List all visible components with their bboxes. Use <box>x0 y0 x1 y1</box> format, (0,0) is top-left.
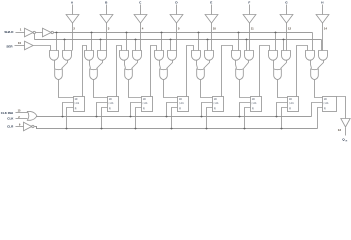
and-gate shift A7a <box>269 51 278 61</box>
and-gate load A7b <box>282 51 291 61</box>
wire SER to stage1 <box>34 46 51 51</box>
svg-text:2: 2 <box>73 27 75 31</box>
svg-text:1D: 1D <box>214 99 217 101</box>
wire input A column <box>72 23 74 51</box>
flip-flop FF1 <box>74 97 85 112</box>
wire input C to buffer <box>140 5 142 15</box>
node load rail stage 4 <box>170 39 172 41</box>
svg-text:C: C <box>139 1 142 5</box>
wire A3a output <box>125 61 126 69</box>
svg-text:SH/LD: SH/LD <box>4 30 14 34</box>
flip-flop FF5 <box>213 97 224 112</box>
wire shift enable stage 4 <box>161 33 163 51</box>
wire O8 to FF8 D <box>315 80 323 98</box>
and-gate load A2b <box>98 51 107 61</box>
wire clock to FF6 CP <box>240 103 251 117</box>
wire FF2 Q to next stage <box>117 46 122 97</box>
svg-text:▷C1: ▷C1 <box>109 102 114 105</box>
wire input G to buffer <box>286 5 288 15</box>
wire input F column <box>249 23 251 51</box>
svg-text:15: 15 <box>18 108 21 112</box>
node clear rail stage 7 <box>281 128 283 130</box>
svg-text:5: 5 <box>178 27 180 31</box>
svg-text:1D: 1D <box>289 99 292 101</box>
or-gate U3 (clock gating) <box>27 111 36 120</box>
svg-text:▷C1: ▷C1 <box>214 102 219 105</box>
wire FF3 Q to next stage <box>151 46 157 97</box>
svg-text:R: R <box>109 109 111 111</box>
and-gate shift A5a <box>192 51 201 61</box>
wire input D column <box>176 23 178 51</box>
svg-text:▷C1: ▷C1 <box>289 102 294 105</box>
svg-text:E: E <box>210 1 212 5</box>
node load rail stage 2 <box>100 39 102 41</box>
svg-text:R: R <box>75 109 77 111</box>
wire input H column <box>322 23 324 51</box>
node shift rail stage 4 <box>161 32 163 34</box>
wire load enable stage 2 <box>100 40 102 51</box>
buffer A (parallel input A) <box>66 15 79 24</box>
wire O3 to FF3 D <box>129 80 142 98</box>
svg-text:10: 10 <box>18 41 22 45</box>
wire FF6 Q to next stage <box>260 46 270 97</box>
wire clock to FF5 CP <box>202 103 213 117</box>
buffer F (parallel input F) <box>243 15 256 24</box>
wire A1a output <box>54 61 56 69</box>
wire clear to FF6 R <box>245 108 251 129</box>
flip-flop FF4 <box>178 97 189 112</box>
svg-text:R: R <box>143 109 145 111</box>
node clock rail stage 7 <box>276 116 278 118</box>
svg-text:13: 13 <box>338 128 342 132</box>
wire input B column <box>106 23 108 51</box>
svg-text:F: F <box>248 1 250 5</box>
wire O1 to FF1 D <box>59 80 74 98</box>
svg-text:SER: SER <box>6 45 13 49</box>
wire load enable stage 6 <box>246 40 248 51</box>
inverter U4 (CLR inverter) <box>24 122 32 131</box>
node clock rail stage 5 <box>201 116 203 118</box>
svg-text:R: R <box>289 109 291 111</box>
buffer E (parallel input E) <box>205 15 218 24</box>
wire A8a output <box>311 61 312 69</box>
buffer H (parallel input H) <box>316 15 329 24</box>
node shift rail stage 6 <box>238 32 240 34</box>
wire load enable stage 8 <box>321 40 323 51</box>
svg-text:CLK: CLK <box>7 117 14 121</box>
or-gate O3 <box>125 69 133 80</box>
wire clock to FF4 CP <box>167 103 178 117</box>
svg-text:1: 1 <box>20 27 22 31</box>
shift-enable rail <box>54 32 313 34</box>
svg-text:H: H <box>321 1 324 5</box>
buffer C (parallel input C) <box>134 15 147 24</box>
node shift rail stage 1 <box>56 32 58 34</box>
wire clear to FF4 R <box>172 108 178 129</box>
wire QH output <box>345 128 347 136</box>
wire input D to buffer <box>176 5 178 15</box>
wire clock to FF8 CP <box>312 103 323 117</box>
and-gate shift A8a <box>306 51 315 61</box>
wire FF7 Q to next stage <box>297 46 308 97</box>
and-gate load A5b <box>205 51 214 61</box>
and-gate shift A2a <box>85 51 94 61</box>
wire FF5 Q to next stage <box>222 46 233 97</box>
wire shift enable stage 6 <box>238 33 240 51</box>
node load rail stage 3 <box>135 39 137 41</box>
svg-text:R: R <box>179 109 181 111</box>
wire clear to FF8 R <box>318 108 323 129</box>
svg-text:12: 12 <box>288 27 292 31</box>
or-gate O4 <box>160 69 168 80</box>
wire clear to FF1 R <box>67 108 74 129</box>
wire load enable stage 5 <box>207 40 209 51</box>
wire shift enable stage 3 <box>126 33 128 51</box>
svg-text:1D: 1D <box>179 99 182 101</box>
wire inv1 to inv2 <box>36 32 43 34</box>
node clear rail stage 3 <box>135 128 137 130</box>
node load rail stage 5 <box>207 39 209 41</box>
wire shift enable stage 8 <box>312 33 314 51</box>
flip-flop FF8 <box>323 97 337 112</box>
node load rail stage 7 <box>283 39 285 41</box>
buffer G (parallel input G) <box>280 15 293 24</box>
wire load enable stage 7 <box>283 40 285 51</box>
flip-flop FF7 <box>288 97 299 112</box>
wire A4a output <box>160 61 161 69</box>
node clock rail stage 6 <box>239 116 241 118</box>
node clear rail stage 1 <box>66 128 68 130</box>
svg-text:▷C1: ▷C1 <box>324 102 329 105</box>
svg-text:10: 10 <box>213 27 217 31</box>
buffer B (parallel input B) <box>100 15 113 24</box>
node shift rail stage 2 <box>91 32 93 34</box>
node clear rail stage 6 <box>244 128 246 130</box>
wire shift enable stage 5 <box>198 33 200 51</box>
node clear rail stage 5 <box>206 128 208 130</box>
svg-text:11: 11 <box>251 27 254 31</box>
wire clear to FF7 R <box>282 108 288 129</box>
svg-text:1D: 1D <box>75 99 78 101</box>
wire input H to buffer <box>322 5 324 15</box>
wire input B to buffer <box>106 5 108 15</box>
wire input E to buffer <box>211 5 213 15</box>
wire A4b output <box>167 61 173 69</box>
svg-text:1D: 1D <box>252 99 255 101</box>
inverter U1b (SH/LD second inverter) <box>43 28 52 37</box>
wire FF4 Q to next stage <box>187 46 194 97</box>
wire A2b output <box>97 61 103 69</box>
flip-flop FF6 <box>251 97 262 112</box>
node load rail stage 1 <box>64 39 66 41</box>
node clear rail stage 4 <box>171 128 173 130</box>
wire A3b output <box>132 61 138 69</box>
node shift rail stage 5 <box>198 32 200 34</box>
or-gate O6 <box>236 69 244 80</box>
clock rail <box>37 116 312 118</box>
wire O5 to FF5 D <box>201 80 213 98</box>
svg-text:R: R <box>252 109 254 111</box>
wire A6a output <box>236 61 237 69</box>
and-gate load A3b <box>133 51 142 61</box>
buffer U2 (SER input buffer) <box>25 41 34 50</box>
svg-text:CLK INH: CLK INH <box>1 111 13 115</box>
wire load enable stage 4 <box>170 40 172 51</box>
wire A7a output <box>273 61 275 69</box>
or-gate O2 <box>90 69 98 80</box>
svg-text:B: B <box>105 1 108 5</box>
and-gate shift A3a <box>120 51 129 61</box>
wire input G column <box>286 23 288 51</box>
wire FF8 Q to output buffer <box>337 97 346 119</box>
node clock rail stage 1 <box>62 116 64 118</box>
flip-flop FF3 <box>142 97 153 112</box>
buffer U5 (QH output buffer) <box>341 119 350 128</box>
wire load enable stage 1 <box>64 40 66 51</box>
svg-text:▷C1: ▷C1 <box>143 102 148 105</box>
wire shift enable stage 2 <box>91 33 93 51</box>
wire clock to FF1 CP <box>63 103 74 117</box>
svg-text:9: 9 <box>19 122 21 126</box>
wire A1b output <box>62 61 68 69</box>
wire clear to FF2 R <box>102 108 108 129</box>
wire clock to FF2 CP <box>97 103 108 117</box>
load-enable rail <box>35 39 322 41</box>
wire clear to FF3 R <box>136 108 142 129</box>
and-gate shift A1a <box>50 51 59 61</box>
svg-text:G: G <box>285 1 288 5</box>
buffer D (parallel input D) <box>170 15 183 24</box>
wire A6b output <box>244 61 249 69</box>
svg-text:▷C1: ▷C1 <box>75 102 80 105</box>
node clear rail stage 2 <box>101 128 103 130</box>
and-gate load A4b <box>168 51 177 61</box>
wire tap to load rail <box>34 34 36 40</box>
svg-text:H: H <box>346 141 348 143</box>
wire A5a output <box>197 61 198 69</box>
node shift rail stage 3 <box>126 32 128 34</box>
svg-text:D: D <box>175 1 178 5</box>
node clock rail stage 3 <box>130 116 132 118</box>
wire O7 to FF7 D <box>278 80 288 98</box>
svg-text:R: R <box>214 109 216 111</box>
svg-text:▷C1: ▷C1 <box>252 102 257 105</box>
svg-text:1D: 1D <box>109 99 112 101</box>
wire O4 to FF4 D <box>164 80 178 98</box>
and-gate shift A4a <box>155 51 164 61</box>
wire load enable stage 3 <box>135 40 137 51</box>
clear rail <box>35 127 318 129</box>
wire O6 to FF6 D <box>240 80 251 98</box>
and-gate load A8b <box>319 51 328 61</box>
or-gate O8 <box>311 69 319 80</box>
wire input C column <box>140 23 142 51</box>
svg-text:▷C1: ▷C1 <box>179 102 184 105</box>
wire A2a output <box>90 61 91 69</box>
wire clear to FF5 R <box>207 108 213 129</box>
and-gate shift A6a <box>232 51 241 61</box>
wire O2 to FF2 D <box>94 80 108 98</box>
svg-text:4: 4 <box>142 27 144 31</box>
svg-text:14: 14 <box>324 27 328 31</box>
node clock rail stage 2 <box>96 116 98 118</box>
flip-flop FF2 <box>108 97 119 112</box>
svg-text:1D: 1D <box>324 99 327 101</box>
or-gate O1 <box>55 69 63 80</box>
node load rail stage 6 <box>246 39 248 41</box>
wire clock to FF7 CP <box>277 103 288 117</box>
svg-text:R: R <box>324 109 326 111</box>
wire A5b output <box>204 61 210 69</box>
wire shift enable stage 1 <box>56 33 58 51</box>
wire input A to buffer <box>72 5 74 15</box>
inverter U1a (SH/LD first inverter) <box>25 28 34 37</box>
svg-text:3: 3 <box>108 27 110 31</box>
svg-text:1D: 1D <box>143 99 146 101</box>
wire input F to buffer <box>249 5 251 15</box>
wire A7b output <box>281 61 287 69</box>
wire input E column <box>211 23 213 51</box>
wire A8b output <box>318 61 324 69</box>
node shift rail stage 7 <box>275 32 277 34</box>
and-gate load A1b <box>63 51 72 61</box>
wire clock to FF3 CP <box>131 103 142 117</box>
or-gate O7 <box>274 69 282 80</box>
and-gate load A6b <box>245 51 254 61</box>
or-gate O5 <box>197 69 205 80</box>
svg-text:A: A <box>71 1 74 5</box>
node clock rail stage 4 <box>166 116 168 118</box>
wire shift enable stage 7 <box>275 33 277 51</box>
svg-text:CLR: CLR <box>7 124 14 128</box>
wire FF1 Q to next stage <box>83 46 87 97</box>
